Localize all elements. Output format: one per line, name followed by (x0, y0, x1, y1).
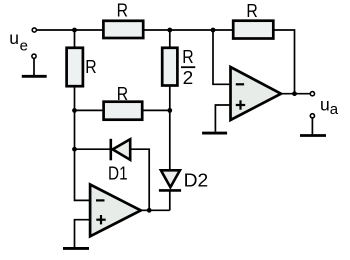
resistor R2 (top right) (233, 21, 273, 39)
node output of U2 (292, 91, 297, 96)
label ue (9, 28, 28, 54)
wire middle rail node to node C (75, 109, 170, 111)
ground (input side) (22, 54, 47, 76)
wire D1 branch from left column to U1 output (75, 149, 150, 210)
diode D2 (pointing down) (159, 170, 181, 190)
svg-text:2: 2 (183, 67, 194, 88)
wire node T down through R/2 to node C (169, 30, 171, 110)
ground (output side) (300, 114, 326, 136)
resistor R3 (middle) (104, 102, 143, 120)
svg-text:e: e (20, 37, 28, 54)
svg-text:R: R (246, 0, 257, 21)
output terminal ua (310, 92, 314, 96)
resistor R4 (left vertical) (67, 48, 83, 86)
svg-text:R: R (117, 83, 128, 104)
op-amp U2 (231, 67, 282, 120)
diode D1 (cathode left) (111, 139, 130, 161)
ground (op-amp U2) (202, 132, 227, 135)
wire U2 non-inverting input to ground (215, 105, 230, 132)
wire left column node A down to U1 inverting input (75, 30, 91, 200)
wire D2 cathode down to U1 output rail (169, 190, 171, 210)
node A (72, 28, 77, 33)
svg-text:R: R (117, 0, 128, 21)
wire node C down to diode D2 (169, 110, 171, 170)
node U1 output (147, 208, 152, 213)
resistor R5 (R/2 vertical) (162, 48, 177, 86)
resistor R1 (top) (103, 21, 143, 38)
node C (167, 108, 172, 113)
wire U1 output to D2 (140, 209, 170, 211)
label R5 value R over 2 fraction (181, 46, 195, 88)
node B (211, 28, 216, 33)
svg-text:D2: D2 (184, 169, 209, 190)
op-amp U1 (90, 185, 141, 237)
wire top rail from input to feedback corner (37, 30, 295, 94)
svg-text:R: R (182, 46, 193, 67)
svg-text:u: u (9, 28, 19, 48)
node D1 branch (72, 147, 77, 152)
label ua (320, 94, 339, 118)
input terminal (32, 28, 36, 32)
svg-text:R: R (85, 56, 96, 77)
wire U2 output to terminal ua (281, 93, 310, 95)
svg-text:D1: D1 (108, 162, 128, 183)
node mid-left (72, 108, 77, 113)
node T (167, 28, 172, 33)
wire node B down to U2 inverting input (213, 30, 231, 84)
svg-text:a: a (330, 101, 339, 118)
svg-text:u: u (320, 94, 330, 114)
ground (op-amp U1) (63, 247, 89, 250)
wire U1 non-inverting input to ground (75, 220, 91, 247)
